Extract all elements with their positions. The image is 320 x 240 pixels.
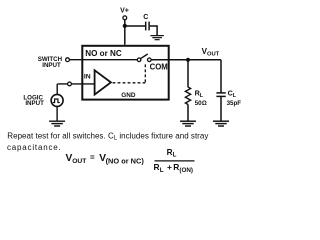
svg-text:INPUT: INPUT bbox=[42, 62, 61, 69]
svg-text:IN: IN bbox=[84, 74, 91, 81]
svg-text:OUT: OUT bbox=[72, 158, 87, 165]
svg-text:35pF: 35pF bbox=[227, 100, 242, 107]
svg-text:L: L bbox=[160, 167, 164, 174]
svg-text:R: R bbox=[154, 162, 160, 172]
svg-text:+: + bbox=[167, 162, 172, 172]
svg-text:NO or NC: NO or NC bbox=[85, 49, 122, 58]
svg-text:50Ω: 50Ω bbox=[195, 100, 207, 107]
svg-text:C: C bbox=[143, 14, 148, 21]
svg-text:COM: COM bbox=[150, 63, 168, 72]
svg-text:(ON): (ON) bbox=[179, 167, 193, 174]
svg-text:INPUT: INPUT bbox=[25, 100, 44, 107]
svg-text:=: = bbox=[90, 153, 95, 162]
svg-text:V+: V+ bbox=[120, 7, 129, 14]
svg-text:GND: GND bbox=[121, 92, 136, 99]
svg-text:capacitance.: capacitance. bbox=[7, 143, 62, 152]
svg-text:L: L bbox=[173, 152, 177, 159]
svg-text:(NO or NC): (NO or NC) bbox=[106, 157, 145, 166]
svg-text:Repeat test for all switches.: Repeat test for all switches. CL include… bbox=[7, 131, 208, 141]
